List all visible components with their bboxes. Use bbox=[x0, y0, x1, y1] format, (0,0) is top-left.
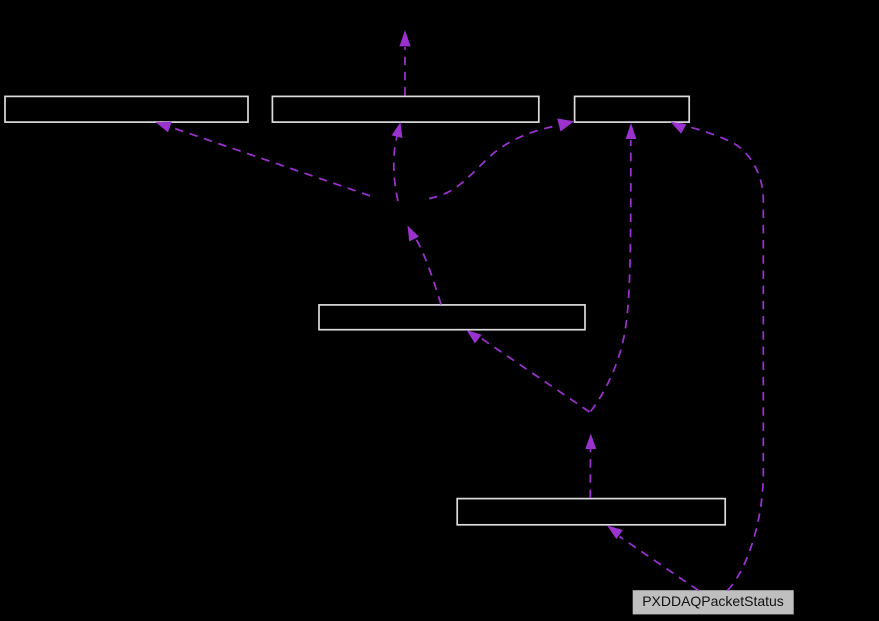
edge E2b: junction J1 to N2 (slightly curved vertical) bbox=[392, 122, 403, 201]
edge E1: N2 to top (upward dashed arrow) bbox=[399, 30, 410, 96]
node N4 (middle class box) bbox=[319, 305, 585, 330]
edge E2a: junction J1 to N1 bbox=[156, 122, 370, 196]
node N5 (lower class box) bbox=[457, 499, 725, 525]
edge E3: N4 up to junction J1 (arrowhead mid-air) bbox=[408, 226, 442, 305]
node N3 (top-right class box) bbox=[575, 96, 690, 122]
edge E4b: junction J2 to N4 bbox=[466, 330, 589, 412]
edge E5: PXDDAQPacketStatus to N5 bbox=[607, 525, 699, 590]
edge E6: PXDDAQPacketStatus to N3 (long curve up the far right) bbox=[671, 122, 764, 591]
node PXDDAQPacketStatus (gray highlighted node) bbox=[633, 591, 793, 614]
svg-text:PXDDAQPacketStatus: PXDDAQPacketStatus bbox=[642, 593, 784, 609]
edge E2c: junction J1 to N3 (curve up-right) bbox=[429, 119, 574, 199]
edge E4a: N5 up to junction J2 (arrowhead mid-air) bbox=[585, 434, 596, 499]
node N2 (top-center class box) bbox=[272, 96, 538, 122]
node N1 (top-left class box) bbox=[5, 96, 248, 122]
edge E4c: junction J2 to N3 (long curve up the middle-right) bbox=[591, 123, 637, 412]
